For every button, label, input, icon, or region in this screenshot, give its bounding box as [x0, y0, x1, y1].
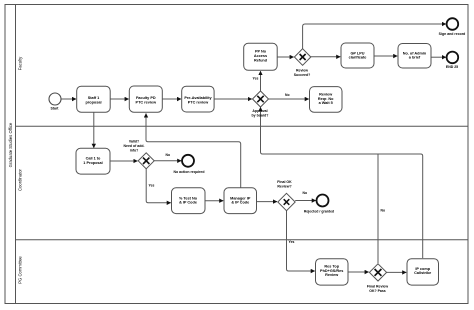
wire G4 to box H [387, 271, 407, 273]
gateway G5 [294, 49, 311, 77]
svg-text:OK? Pass: OK? Pass [369, 289, 386, 293]
box B2 [341, 43, 374, 68]
lane divider 2 [16, 239, 469, 241]
gateway G2 [123, 140, 170, 188]
box B1 [244, 43, 278, 70]
wire task F to gateway G3 [257, 201, 278, 203]
svg-text:No action required: No action required [174, 170, 205, 174]
svg-text:proposal: proposal [85, 100, 101, 104]
wire gateway G4 top up to loop line [377, 154, 379, 263]
svg-text:END 25: END 25 [446, 65, 458, 69]
start event [49, 93, 61, 105]
task B [129, 86, 162, 112]
svg-text:Yes: Yes [149, 184, 155, 188]
wire task D to gateway G2 [110, 160, 137, 162]
lane divider 1 [16, 125, 469, 127]
pool label divider [15, 5, 17, 304]
end event E3 [174, 155, 205, 174]
gateway G3 [277, 180, 385, 244]
svg-text:1 Proposal: 1 Proposal [83, 161, 102, 165]
svg-text:a Wait 5: a Wait 5 [319, 101, 333, 105]
svg-text:No: No [166, 153, 171, 157]
svg-text:Faculty: Faculty [18, 56, 23, 70]
wire G5 to box B2 [311, 56, 340, 58]
svg-text:a brief: a brief [409, 56, 421, 60]
wire task A down to task D [93, 112, 95, 148]
wire task E to task F [205, 200, 223, 202]
task E [172, 188, 206, 214]
task A [77, 86, 111, 112]
svg-text:Yes: Yes [253, 77, 259, 81]
task C [182, 86, 214, 112]
svg-text:No: No [381, 209, 386, 213]
svg-text:Yes: Yes [289, 240, 295, 244]
box H [407, 259, 439, 285]
svg-text:& IP Code: & IP Code [231, 201, 249, 205]
wire box B2 to box B3 [374, 55, 397, 57]
end event E4 [304, 195, 334, 214]
gateway G4 [367, 264, 388, 293]
svg-text:info?: info? [130, 148, 139, 152]
wire task A to task B [110, 98, 128, 100]
wire G2 No to end E3 [154, 160, 181, 162]
svg-text:Rejected / granted: Rejected / granted [304, 210, 334, 214]
svg-text:No: No [303, 191, 308, 195]
svg-text:clarificate: clarificate [349, 56, 367, 60]
review box [310, 87, 343, 113]
svg-text:PTC review: PTC review [136, 100, 157, 104]
gateway G1 [252, 77, 290, 118]
wire start to task A [61, 98, 76, 100]
wire box G to gateway G4 [348, 271, 369, 273]
wire task B to task C [162, 98, 181, 100]
wire task F top loop back to task B [146, 114, 241, 188]
svg-text:& IP Code: & IP Code [179, 201, 197, 205]
wire box H top loop to gateway G1 bottom [261, 107, 423, 258]
svg-text:No: No [285, 93, 290, 97]
svg-text:Refund: Refund [254, 58, 268, 62]
svg-text:Review?: Review? [277, 184, 291, 188]
wire G1 Yes up to box B1 [260, 71, 262, 91]
svg-text:Review: Review [325, 273, 338, 277]
svg-text:Sign and record: Sign and record [439, 32, 466, 36]
svg-text:Succeed?: Succeed? [294, 73, 311, 77]
wire G2 Yes down to task E [146, 169, 171, 203]
svg-text:Start: Start [51, 107, 60, 111]
task F [224, 188, 257, 214]
box B3 [398, 44, 431, 69]
task D [76, 148, 110, 174]
svg-text:by board?: by board? [252, 113, 269, 117]
end event E2 [446, 52, 458, 70]
end event E1 [439, 18, 466, 36]
wire box B1 to gateway G5 [277, 56, 293, 58]
svg-text:Callstrike: Callstrike [414, 271, 431, 275]
svg-text:PTC review: PTC review [188, 100, 209, 104]
wire G3 Yes down to box G [287, 211, 315, 271]
wire G5 up and right to end E1 [303, 24, 446, 49]
wire task C to gateway G1 [214, 98, 252, 100]
wire G1 No to review box [269, 98, 309, 100]
svg-text:PG Committee: PG Committee [18, 256, 23, 284]
wire box B3 to end E2 [431, 56, 446, 58]
wire G3 No to end E4 [295, 200, 316, 202]
svg-text:Graduate Studies Office: Graduate Studies Office [8, 122, 13, 167]
box G [316, 259, 349, 285]
svg-text:Coordinator: Coordinator [18, 168, 23, 190]
